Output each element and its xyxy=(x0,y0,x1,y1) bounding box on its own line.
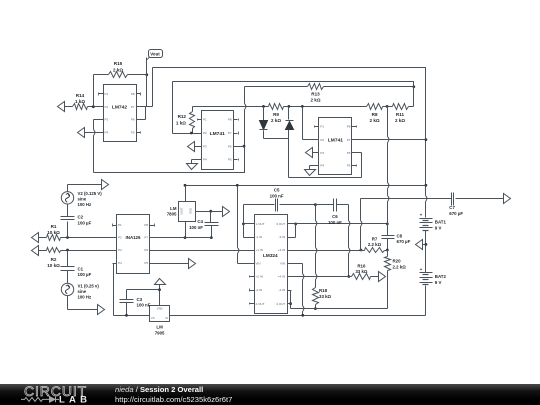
svg-text:R20: R20 xyxy=(393,259,402,264)
svg-text:GND: GND xyxy=(189,208,193,214)
svg-text:LM: LM xyxy=(156,325,163,330)
svg-text:C1: C1 xyxy=(78,266,84,271)
svg-text:P4: P4 xyxy=(118,261,122,265)
svg-text:100 nF: 100 nF xyxy=(270,194,284,199)
svg-text:C5: C5 xyxy=(274,188,280,193)
svg-text:2.2 kΩ: 2.2 kΩ xyxy=(393,264,407,269)
svg-text:sine: sine xyxy=(78,289,87,294)
svg-text:BAT2: BAT2 xyxy=(435,274,447,279)
svg-text:2 kΩ: 2 kΩ xyxy=(310,98,320,103)
svg-text:P8: P8 xyxy=(347,125,351,129)
svg-text:P2: P2 xyxy=(203,131,207,135)
svg-text:+3·IN: +3·IN xyxy=(278,248,285,252)
svg-text:C4: C4 xyxy=(197,219,203,224)
svg-text:-4·IN: -4·IN xyxy=(279,288,286,292)
svg-text:P6: P6 xyxy=(144,248,148,252)
svg-text:LM324: LM324 xyxy=(263,253,278,258)
svg-text:P7: P7 xyxy=(144,236,148,240)
svg-text:P8: P8 xyxy=(228,118,232,122)
svg-text:C6: C6 xyxy=(332,214,338,219)
svg-text:+2·IN: +2·IN xyxy=(256,275,263,279)
svg-text:P4: P4 xyxy=(320,164,324,168)
svg-text:2·OUT: 2·OUT xyxy=(256,302,265,306)
svg-text:100 Hz: 100 Hz xyxy=(78,202,92,207)
svg-text:+: + xyxy=(420,267,423,272)
svg-text:R14: R14 xyxy=(76,93,85,98)
svg-text:P7: P7 xyxy=(228,131,232,135)
svg-text:V2 (0.125 V): V2 (0.125 V) xyxy=(78,191,103,196)
svg-text:INA126: INA126 xyxy=(126,235,141,240)
svg-text:P7: P7 xyxy=(131,105,135,109)
svg-text:VIN: VIN xyxy=(256,262,261,266)
svg-text:VOUT: VOUT xyxy=(180,207,184,215)
svg-text:P5: P5 xyxy=(228,158,232,162)
svg-text:BAT1: BAT1 xyxy=(435,220,447,225)
svg-text:1 kΩ: 1 kΩ xyxy=(75,99,85,104)
svg-text:P7: P7 xyxy=(347,138,351,142)
svg-text:VIN: VIN xyxy=(280,262,285,266)
svg-text:100 µF: 100 µF xyxy=(78,221,92,226)
svg-text:R11: R11 xyxy=(396,112,405,117)
svg-text:-2·IN: -2·IN xyxy=(256,288,263,292)
svg-text:P1: P1 xyxy=(118,223,122,227)
svg-text:7805: 7805 xyxy=(167,212,177,217)
svg-text:C2: C2 xyxy=(78,215,84,220)
svg-text:P4: P4 xyxy=(203,158,207,162)
svg-text:R8: R8 xyxy=(372,112,378,117)
svg-text:7905: 7905 xyxy=(155,330,165,335)
svg-text:100 nF: 100 nF xyxy=(328,220,342,225)
svg-text:R1: R1 xyxy=(51,224,57,229)
svg-text:+: + xyxy=(420,213,423,218)
svg-text:P6: P6 xyxy=(131,118,135,122)
svg-text:P3: P3 xyxy=(118,248,122,252)
svg-text:+1·IN: +1·IN xyxy=(256,248,263,252)
svg-text:Vout: Vout xyxy=(150,52,160,57)
svg-text:VO: VO xyxy=(151,316,155,320)
svg-text:2 kΩ: 2 kΩ xyxy=(113,67,123,72)
svg-text:10 kΩ: 10 kΩ xyxy=(47,230,60,235)
svg-text:P8: P8 xyxy=(144,223,148,227)
svg-text:sine: sine xyxy=(78,197,87,202)
svg-text:LM: LM xyxy=(170,206,177,211)
svg-text:P1: P1 xyxy=(105,92,109,96)
svg-text:R9: R9 xyxy=(273,112,279,117)
svg-text:33 kΩ: 33 kΩ xyxy=(319,294,332,299)
svg-text:P2: P2 xyxy=(118,236,122,240)
svg-text:2.2 kΩ: 2.2 kΩ xyxy=(368,242,382,247)
svg-text:9 V: 9 V xyxy=(435,225,442,230)
svg-text:1·OUT: 1·OUT xyxy=(256,222,265,226)
svg-text:R16: R16 xyxy=(357,263,366,268)
svg-text:2 kΩ: 2 kΩ xyxy=(271,118,281,123)
svg-text:P5: P5 xyxy=(144,261,148,265)
svg-text:P3: P3 xyxy=(105,118,109,122)
svg-text:100 µF: 100 µF xyxy=(78,272,92,277)
svg-text:-3·IN: -3·IN xyxy=(279,235,286,239)
svg-text:GND: GND xyxy=(157,307,163,311)
svg-text:+4·IN: +4·IN xyxy=(278,275,285,279)
svg-text:LM741: LM741 xyxy=(210,131,226,137)
svg-text:33 kΩ: 33 kΩ xyxy=(355,269,368,274)
svg-text:1 kΩ: 1 kΩ xyxy=(176,120,186,125)
svg-text:R7: R7 xyxy=(372,236,378,241)
svg-text:P3: P3 xyxy=(203,144,207,148)
svg-text:R12: R12 xyxy=(178,114,187,119)
svg-text:-1·IN: -1·IN xyxy=(256,235,263,239)
svg-text:9 V: 9 V xyxy=(435,280,442,285)
svg-text:C8: C8 xyxy=(397,233,403,238)
svg-text:R18: R18 xyxy=(319,288,328,293)
svg-text:LAB: LAB xyxy=(59,394,91,405)
svg-text:4·OUT: 4·OUT xyxy=(276,302,285,306)
svg-text:P6: P6 xyxy=(228,144,232,148)
svg-text:670 µF: 670 µF xyxy=(449,211,463,216)
svg-text:2 kΩ: 2 kΩ xyxy=(370,118,380,123)
svg-text:P4: P4 xyxy=(105,131,109,135)
svg-text:LM742: LM742 xyxy=(112,104,128,110)
svg-text:100 Hz: 100 Hz xyxy=(78,294,92,299)
svg-text:P5: P5 xyxy=(131,131,135,135)
svg-text:IN: IN xyxy=(165,316,168,320)
svg-text:R15: R15 xyxy=(114,61,123,66)
svg-text:LM741: LM741 xyxy=(328,137,344,143)
svg-text:2 kΩ: 2 kΩ xyxy=(395,118,405,123)
svg-text:P3: P3 xyxy=(320,151,324,155)
svg-text:P2: P2 xyxy=(105,105,109,109)
svg-text:P5: P5 xyxy=(347,164,351,168)
svg-text:P1: P1 xyxy=(203,118,207,122)
svg-text:3·OUT: 3·OUT xyxy=(276,222,285,226)
svg-text:P8: P8 xyxy=(131,92,135,96)
svg-text:C7: C7 xyxy=(449,205,455,210)
svg-text:V1 (0.25 v): V1 (0.25 v) xyxy=(78,283,100,288)
svg-text:R2: R2 xyxy=(51,257,57,262)
svg-text:R13: R13 xyxy=(311,91,320,96)
svg-text:C3: C3 xyxy=(137,297,143,302)
svg-text:10 kΩ: 10 kΩ xyxy=(47,263,60,268)
svg-text:P2: P2 xyxy=(320,138,324,142)
svg-text:P6: P6 xyxy=(347,151,351,155)
svg-text:100 nF: 100 nF xyxy=(137,303,151,308)
svg-text:P1: P1 xyxy=(320,125,324,129)
svg-text:670 µF: 670 µF xyxy=(397,239,411,244)
svg-text:100 nF: 100 nF xyxy=(189,225,203,230)
